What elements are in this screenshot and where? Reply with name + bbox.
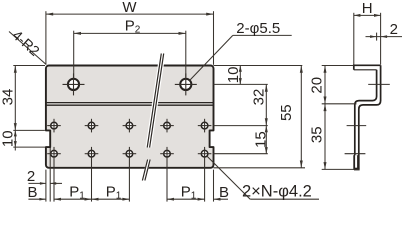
label 2-phi5.5 with leader to right hole xyxy=(189,35,291,80)
svg-text:10: 10 xyxy=(0,130,17,147)
bend line lower xyxy=(46,104,214,106)
svg-text:2-φ5.5: 2-φ5.5 xyxy=(236,20,280,37)
small holes grid (2 x N, phi 4.2) xyxy=(47,119,211,202)
small hole r1c1 (phi 4.2) xyxy=(47,119,61,133)
svg-text:B: B xyxy=(219,184,229,201)
label 2xN-phi4.2 with leader to bottom-right small hole xyxy=(207,156,319,199)
break mark in bottom dimension chain xyxy=(142,160,151,181)
large hole right (phi 5.5) xyxy=(175,73,197,95)
small hole r2c5 (phi 4.2) xyxy=(198,147,212,202)
plate body (front view with edge notches) xyxy=(46,66,214,168)
small hole r2c1 (phi 4.2) xyxy=(47,147,61,202)
dimension H xyxy=(354,13,381,65)
large hole left (phi 5.5) xyxy=(63,73,85,95)
dimension P2 xyxy=(74,31,186,80)
dimension 34 (left) xyxy=(13,66,45,131)
dimension 10 (right top) xyxy=(239,66,241,85)
svg-text:10: 10 xyxy=(225,67,242,84)
svg-text:34: 34 xyxy=(0,89,17,106)
small hole r2c3 (phi 4.2) xyxy=(123,147,137,202)
side view hole center ticks xyxy=(345,84,390,153)
dimension 35 (side view) xyxy=(322,104,360,170)
bend line upper xyxy=(46,102,214,104)
svg-text:55: 55 xyxy=(278,104,295,121)
bottom-right dimension B xyxy=(214,170,229,202)
svg-text:H: H xyxy=(362,0,373,17)
dimension 20 (side view) xyxy=(322,66,357,104)
dimension P1 (right) xyxy=(167,198,205,200)
dimension 2 (wall thickness, side view) xyxy=(366,33,402,41)
dimension 55 xyxy=(300,66,302,168)
side view profile (Z-section) xyxy=(354,65,381,169)
dimension 10 (left notch) xyxy=(13,130,45,150)
right column extension lines xyxy=(214,66,306,168)
side view bottom tab (doubled material) xyxy=(353,155,359,170)
label 4-R2 with leader to top-left corner xyxy=(9,32,46,65)
svg-text:B: B xyxy=(27,184,37,201)
dimension 32 xyxy=(265,84,267,125)
dimensions P1 P1 (left pair) xyxy=(85,198,92,201)
dimension W xyxy=(46,11,214,65)
svg-text:15: 15 xyxy=(253,131,270,148)
svg-text:32: 32 xyxy=(250,89,267,106)
svg-text:2: 2 xyxy=(27,168,35,185)
svg-text:20: 20 xyxy=(309,77,326,94)
bottom-left dimension 2 xyxy=(28,148,62,202)
small hole r1c2 (phi 4.2) xyxy=(85,119,99,133)
dimension 15 xyxy=(265,126,267,154)
svg-text:2×N-φ4.2: 2×N-φ4.2 xyxy=(242,182,312,200)
small hole r1c4 (phi 4.2) xyxy=(160,119,174,133)
svg-text:35: 35 xyxy=(309,126,326,143)
break gap across plate xyxy=(145,54,165,148)
small hole r1c3 (phi 4.2) xyxy=(123,119,137,133)
svg-text:2: 2 xyxy=(390,21,398,38)
bottom-left dimension B xyxy=(28,198,129,200)
small hole r1c5 (phi 4.2) xyxy=(198,119,212,133)
svg-text:W: W xyxy=(122,0,137,16)
small hole r2c4 (phi 4.2) xyxy=(160,147,174,202)
small hole r2c2 (phi 4.2) xyxy=(85,147,99,202)
